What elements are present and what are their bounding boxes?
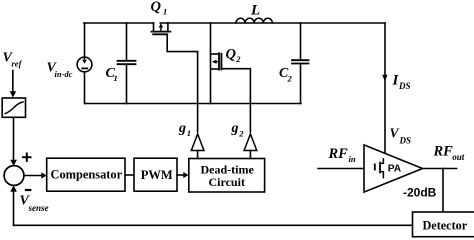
- wire limiter to summer: [13, 117, 15, 160]
- label minus: [26, 189, 30, 191]
- label PA: [388, 163, 402, 174]
- svg-text:L: L: [250, 3, 260, 19]
- svg-text:2: 2: [235, 54, 241, 64]
- svg-text:in: in: [349, 154, 356, 164]
- svg-text:Circuit: Circuit: [209, 175, 245, 189]
- svg-text:PA: PA: [388, 163, 402, 174]
- label RFout: [433, 144, 465, 162]
- label g2: [231, 121, 245, 138]
- wire top rail right segment: [160, 22, 385, 24]
- arrow summer to compensator: [24, 172, 47, 178]
- wire Vin-dc top branch: [84, 23, 86, 59]
- op-amp PA triangle: [364, 145, 423, 192]
- svg-text:V: V: [390, 126, 400, 141]
- label IDS: [392, 73, 411, 92]
- label Dead-time Circuit: [201, 163, 255, 190]
- svg-text:Detector: Detector: [423, 218, 468, 232]
- wire -20dB tap to detector: [442, 169, 444, 213]
- wire g1 to dead-time box: [197, 151, 199, 159]
- label Compensator: [51, 168, 123, 182]
- compensator box: [47, 158, 125, 191]
- wire g2 to dead-time box: [249, 151, 251, 159]
- label Vref: [3, 51, 23, 69]
- arrow IDS: [382, 75, 387, 82]
- label g1: [178, 121, 191, 138]
- wire Q2 drain-source branch: [210, 23, 212, 104]
- label Q2: [226, 47, 242, 65]
- wire Vin-dc bottom branch: [84, 72, 86, 104]
- svg-text:1: 1: [163, 7, 167, 17]
- svg-text:-20dB: -20dB: [403, 186, 437, 200]
- transistor Q2: [211, 53, 222, 69]
- wire VDS drop to PA: [384, 23, 386, 152]
- inductor L: [236, 18, 272, 23]
- label C1: [106, 66, 118, 83]
- label C2: [279, 66, 293, 84]
- wire Q2 gate to g2 driver: [221, 69, 250, 132]
- svg-text:RF: RF: [328, 146, 349, 162]
- svg-text:1: 1: [187, 128, 191, 138]
- summing junction: [4, 166, 24, 186]
- gate driver g1: [191, 134, 204, 151]
- svg-text:Compensator: Compensator: [51, 168, 123, 182]
- svg-text:Q: Q: [226, 47, 237, 63]
- arrow into summer plus input: [10, 160, 17, 166]
- wire bottom rail: [85, 103, 302, 105]
- wire Q1 gate to g1 driver: [167, 34, 197, 132]
- capacitor C2: [292, 23, 309, 104]
- arrow Vref to limiter: [10, 71, 17, 98]
- svg-text:1: 1: [114, 73, 118, 83]
- svg-text:Q: Q: [151, 0, 162, 15]
- label Detector: [423, 218, 468, 232]
- svg-text:in-dc: in-dc: [55, 69, 73, 79]
- svg-text:g: g: [178, 121, 186, 136]
- wire PA output: [423, 168, 457, 170]
- label VDS: [390, 126, 412, 146]
- voltage source Vin-dc: [77, 57, 92, 72]
- svg-text:ref: ref: [12, 59, 23, 69]
- svg-text:PWM: PWM: [141, 168, 173, 182]
- svg-text:sense: sense: [28, 203, 49, 213]
- svg-text:RF: RF: [433, 144, 454, 160]
- transistor Q1: [152, 23, 171, 34]
- svg-text:2: 2: [287, 74, 293, 84]
- label Vsense: [20, 194, 49, 213]
- dead-time circuit box: [189, 159, 265, 193]
- transistor glyph inside PA: [375, 159, 384, 178]
- svg-text:out: out: [452, 152, 465, 162]
- limiter block with curve: [2, 98, 25, 117]
- arrow pwm to dead-time: [177, 172, 189, 178]
- wire feedback bottom: [14, 224, 413, 226]
- svg-text:DS: DS: [399, 136, 412, 146]
- gate driver g2: [244, 134, 257, 151]
- wire RFin input: [318, 168, 364, 170]
- label RFin: [328, 146, 356, 164]
- svg-text:g: g: [231, 121, 239, 136]
- label Vin-dc: [47, 61, 73, 80]
- label Q1: [151, 0, 168, 17]
- wire feedback rise to summer: [13, 191, 15, 226]
- svg-text:DS: DS: [398, 81, 411, 91]
- capacitor C1: [118, 23, 136, 104]
- pwm box: [134, 158, 177, 191]
- wire compensator to pwm: [125, 174, 134, 176]
- label -20dB: [403, 186, 437, 200]
- detector box: [413, 212, 474, 237]
- label L: [250, 3, 260, 19]
- arrow into summer minus input: [10, 185, 17, 191]
- label plus: [23, 154, 30, 161]
- wire top rail left segment: [84, 22, 154, 24]
- svg-text:2: 2: [238, 128, 244, 138]
- label PWM: [141, 168, 173, 182]
